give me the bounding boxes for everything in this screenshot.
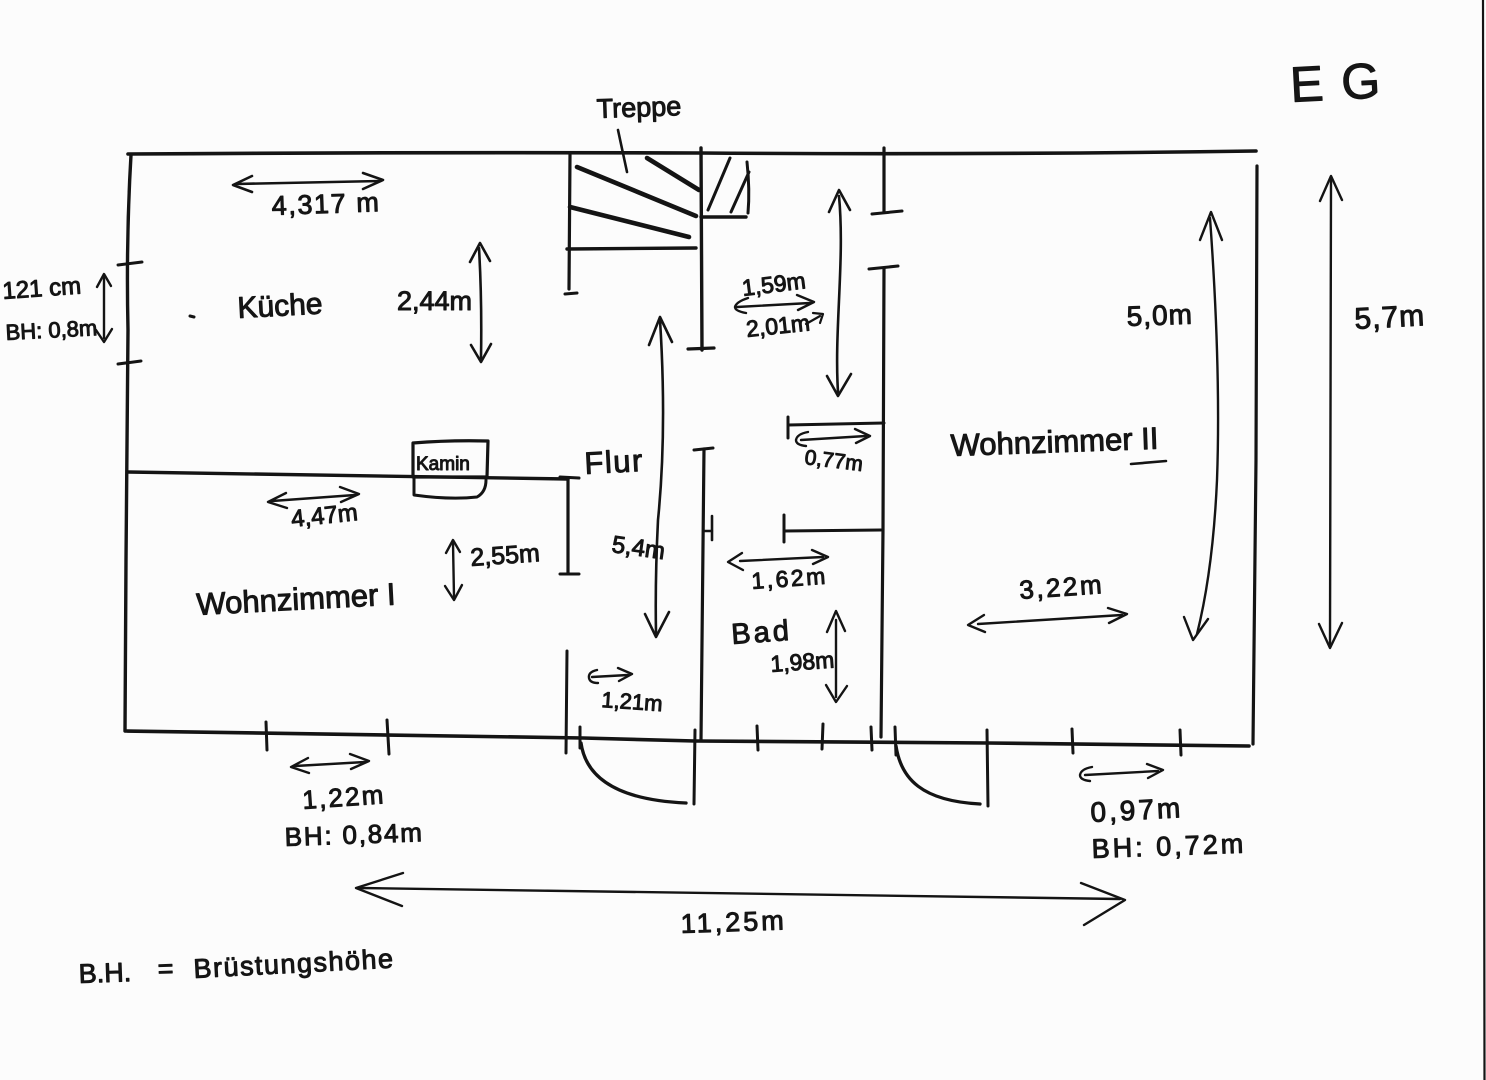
wall Bad top line [784,530,881,531]
dimension bar 0,77m [788,423,884,425]
wall Flur T-section [560,477,579,478]
stair hatch line 1 [708,158,730,210]
dimension arrow 11,25m [360,888,1120,899]
wall x884 window tick lower [869,266,898,269]
svg-text:11,25m: 11,25m [680,905,787,939]
small arrow 2,01m [806,316,820,324]
svg-text:4,47m: 4,47m [290,499,359,533]
svg-text:5,0m: 5,0m [1126,299,1193,332]
stair hatch line 2 [731,172,749,212]
svg-text:BH: 0,72m: BH: 0,72m [1091,829,1247,864]
svg-text:2,01m: 2,01m [745,309,811,342]
svg-text:Bad: Bad [730,615,793,651]
door Wohnzimmer II swing arc [896,746,980,804]
dimension arrow 0,77m [801,436,866,440]
window tick bottom x1072 [1072,729,1073,753]
dimension arrow 1,21m small [592,675,628,677]
svg-text:1,98m: 1,98m [770,647,836,677]
dimension arrow 5,4m vertical flur [656,320,663,633]
svg-text:2,55m: 2,55m [469,539,540,572]
svg-text:5,7m: 5,7m [1354,299,1426,336]
dimension arrow 2,44m vertical [479,248,481,358]
dimension arrow 4,47m [272,495,355,501]
door Flur leaf [694,730,695,804]
dimension arrow 0,97m [1085,771,1158,775]
door Wohnzimmer II hinge post [895,727,896,755]
wall divider Küche/Wohnzimmer I [128,472,568,479]
Kamin box lower [414,479,486,498]
wall x884 window tick upper [872,211,902,214]
svg-text:0,77m: 0,77m [803,446,864,476]
dimension arrow 1,22m [295,762,365,766]
svg-text:121 cm: 121 cm [2,273,82,305]
door Flur swing arc [581,743,686,803]
door Flur hinge post [579,727,582,748]
window tick bottom x757 [757,726,758,750]
door Wohnzimmer II leaf [987,730,988,806]
wall x884 upper segment [882,148,885,212]
pen dot in Küche [190,316,194,317]
svg-text:Küche: Küche [237,288,324,325]
stair left wall end tick [565,293,577,294]
svg-text:Kamin: Kamin [416,454,470,475]
window tick left wall upper [118,262,142,265]
wall Flur/Bad top bar [694,448,713,450]
svg-text:0,97m: 0,97m [1090,792,1184,828]
svg-text:1,22m: 1,22m [301,779,386,815]
dimension arrow 2,55m vertical [453,543,454,597]
wall Flur/Bad [701,449,704,740]
svg-text:Brüstungshöhe: Brüstungshöhe [193,944,395,984]
svg-text:Wohnzimmer I: Wohnzimmer I [196,577,397,622]
svg-text:1,21m: 1,21m [601,687,664,716]
door Flur left post [566,651,567,753]
dimension arrow 1,59m [737,303,810,307]
window tick bottom x387 [387,720,389,754]
stair upper box right edge [747,162,749,213]
dimension arrow vertical x840 [837,196,841,392]
svg-text:4,317 m: 4,317 m [271,187,381,221]
window tick bottom x822 [822,724,823,749]
stair right wall [701,148,702,350]
wall top [128,151,1256,154]
window tick left wall lower [118,361,141,364]
svg-text:BH: 0,84m: BH: 0,84m [284,817,424,852]
svg-text:B.H.: B.H. [78,957,132,989]
svg-text:2,44m: 2,44m [397,286,472,316]
wall x884 main segment [881,268,884,737]
stair landing line [567,248,696,249]
wall left [125,155,131,731]
dimension arrow 5,7m vertical [1330,180,1331,644]
stair tread 2 [577,167,696,216]
svg-text:Treppe: Treppe [596,91,682,124]
dimension arrow 3,22m [978,615,1122,624]
dimension arrow 5,0m vertical [1197,218,1218,634]
scan edge line right [1483,0,1485,1080]
stair tread 3 [570,207,689,237]
svg-text:Wohnzimmer II: Wohnzimmer II [950,421,1159,463]
svg-text:Flur: Flur [584,443,645,481]
svg-text:BH: 0,8m: BH: 0,8m [5,315,98,345]
dimension arrow 1,98m vertical [835,620,837,697]
svg-text:3,22m: 3,22m [1018,569,1105,605]
dimension arrow 4,317m [236,181,380,184]
stair right wall foot bar [688,348,714,349]
window tick bottom x266 [266,722,267,750]
window tick bottom x1180 [1180,730,1181,755]
svg-text:=: = [157,953,174,984]
window tick bottom x871 [871,727,872,750]
door hinge mark H [711,516,714,540]
Treppe pointer line [618,130,627,172]
dimension arrow 1,62m [740,557,823,561]
stair upper box bottom [701,215,746,218]
svg-text:E G: E G [1289,52,1384,113]
stair tread 1 [647,158,699,190]
stair left wall [569,155,570,289]
wall bottom [126,731,1249,746]
dimension arrow 121cm vertical [103,277,105,338]
tick Bad top left [783,515,786,542]
Kamin box upper [413,441,488,477]
underline II [1131,461,1166,464]
svg-text:1,62m: 1,62m [751,563,829,594]
wall right [1253,166,1257,744]
